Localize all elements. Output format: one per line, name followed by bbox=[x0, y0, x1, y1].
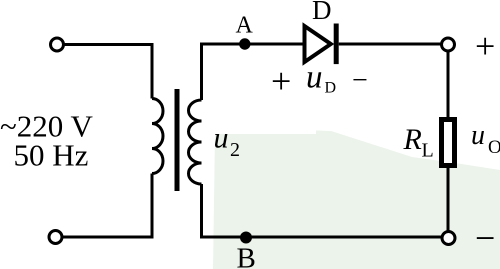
wire primary bottom bbox=[62, 174, 152, 238]
watermark highlight region bbox=[213, 131, 500, 269]
transformer core bbox=[175, 89, 180, 191]
terminal top-right bbox=[442, 38, 455, 51]
svg-text:−: − bbox=[475, 218, 495, 258]
transformer secondary winding bbox=[189, 100, 202, 184]
wire right lower bbox=[447, 165, 450, 231]
svg-text:+: + bbox=[475, 26, 495, 66]
svg-text:−: − bbox=[352, 65, 368, 96]
svg-text:2: 2 bbox=[230, 139, 240, 161]
svg-text:u: u bbox=[214, 122, 229, 155]
svg-text:50 Hz: 50 Hz bbox=[14, 138, 89, 173]
svg-text:+: + bbox=[271, 61, 291, 101]
transformer primary winding bbox=[152, 99, 163, 174]
wire right upper bbox=[447, 51, 450, 120]
wire secondary top bbox=[202, 44, 303, 100]
node A bbox=[239, 38, 250, 49]
svg-text:O: O bbox=[488, 137, 500, 158]
terminal bottom-right bbox=[442, 232, 455, 245]
svg-text:u: u bbox=[306, 60, 323, 96]
svg-text:A: A bbox=[236, 13, 254, 39]
diode D triangle bbox=[305, 26, 331, 62]
wire secondary bottom bbox=[202, 184, 443, 237]
resistor RL bbox=[442, 120, 455, 166]
svg-text:D: D bbox=[325, 79, 337, 96]
diode D cathode bar bbox=[334, 24, 339, 65]
svg-text:D: D bbox=[312, 0, 332, 25]
svg-text:B: B bbox=[237, 243, 256, 269]
wire primary top bbox=[64, 45, 153, 99]
svg-text:L: L bbox=[422, 140, 434, 162]
svg-text:u: u bbox=[471, 120, 485, 151]
terminal top-left bbox=[51, 38, 64, 51]
node B bbox=[240, 232, 252, 244]
wire diode to top-right bbox=[339, 43, 442, 46]
svg-text:R: R bbox=[403, 123, 422, 156]
terminal bottom-left bbox=[49, 231, 62, 244]
